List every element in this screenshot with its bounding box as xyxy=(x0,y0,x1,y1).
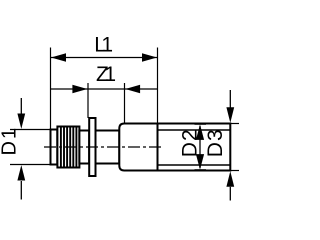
middle cylinder xyxy=(96,131,120,164)
dimension D1 xyxy=(0,98,51,200)
bore line bottom xyxy=(158,164,231,166)
pipe stop edge xyxy=(157,124,159,171)
thread section xyxy=(57,127,79,168)
extension line left xyxy=(50,48,52,130)
press sleeve body xyxy=(119,124,230,171)
centerline xyxy=(44,146,164,148)
extension line bottom right edge xyxy=(230,170,239,172)
svg-text:D1: D1 xyxy=(0,126,21,156)
neck xyxy=(79,131,89,164)
dimension D3 xyxy=(204,90,234,201)
dimension L1 xyxy=(51,34,158,62)
bore line top xyxy=(158,129,231,131)
flange collar xyxy=(89,118,95,176)
svg-text:D2: D2 xyxy=(178,128,201,157)
svg-text:D3: D3 xyxy=(204,128,227,157)
dimension Z1 xyxy=(51,63,158,124)
extension line right xyxy=(157,48,159,124)
dimension D2 double arrow xyxy=(178,124,206,170)
threaded stub body xyxy=(51,130,58,165)
extension line top right edge xyxy=(230,123,239,125)
